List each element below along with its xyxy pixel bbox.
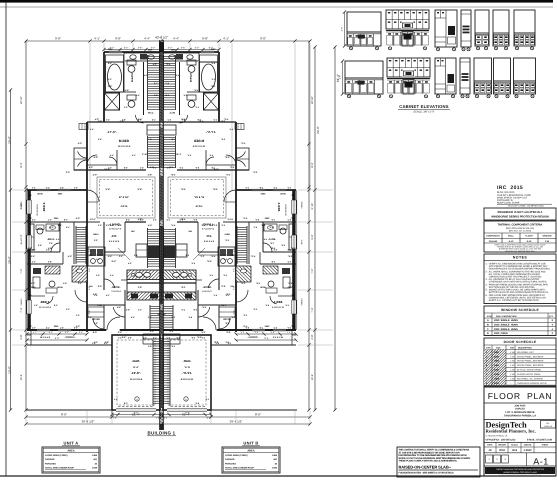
svg-text:FOYER: FOYER [223, 318, 231, 321]
top sub dimension line [104, 49, 219, 51]
hall/kit partition vertical2 [197, 222, 199, 252]
window top bath [201, 51, 214, 53]
svg-text:1.2500: 1.2500 [524, 449, 532, 452]
svg-text:5'-6": 5'-6" [194, 89, 198, 92]
wing bottom wall / front wall [162, 329, 297, 331]
svg-text:3'-4": 3'-4" [79, 331, 83, 334]
svg-text:20'-10": 20'-10" [20, 96, 23, 104]
svg-text:9'-0": 9'-0" [260, 36, 266, 40]
svg-text:BLDG: IRC-2015: BLDG: IRC-2015 [497, 191, 515, 194]
leader arrow kitchen [118, 248, 130, 260]
svg-text:2'-10": 2'-10" [142, 153, 148, 156]
kitchen rear wall band [127, 282, 162, 284]
extension lines bottom [25, 411, 27, 424]
svg-text:-BA.2-: -BA.2- [47, 238, 55, 241]
svg-text:-BED 3-: -BED 3- [40, 300, 50, 304]
svg-text:1949: 1949 [92, 467, 98, 470]
svg-text:-14'-6-: -14'-6- [195, 205, 203, 208]
svg-text:-GAR-: -GAR- [183, 359, 192, 363]
svg-text:5'-4": 5'-4" [171, 224, 175, 227]
svg-text:6'-1": 6'-1" [132, 154, 136, 157]
svg-text:8'-0": 8'-0" [98, 285, 102, 288]
step front center [162, 333, 181, 335]
svg-text:3'-2": 3'-2" [153, 219, 157, 222]
bed3 built-ins cluster [282, 268, 290, 274]
svg-text:FLOOR PLAN: FLOOR PLAN [488, 391, 553, 401]
svg-text:1'-6": 1'-6" [171, 138, 175, 141]
leader line hall [95, 254, 125, 256]
svg-text:3'-4": 3'-4" [118, 331, 122, 334]
svg-text:3'-0": 3'-0" [94, 239, 98, 242]
bath block left wall [103, 52, 105, 122]
svg-text:3'-8": 3'-8" [221, 120, 225, 123]
svg-text:WDW: WDW [260, 286, 265, 289]
svg-text:8'-0": 8'-0" [108, 62, 112, 65]
svg-text:SIZE / DESCRIPTION: SIZE / DESCRIPTION [496, 315, 517, 318]
svg-text:8'-0": 8'-0" [93, 331, 97, 334]
garage dashed inset [168, 340, 206, 405]
svg-text:TANGIPAHOA PARISH, LA: TANGIPAHOA PARISH, LA [504, 414, 536, 417]
svg-text:DISCREPANCIES TO THE DESIGNER: DISCREPANCIES TO THE DESIGNER BEFORE PRO… [399, 454, 467, 457]
svg-text:LIVING AREA (COND): LIVING AREA (COND) [45, 454, 68, 457]
bed3 built-ins cluster [33, 268, 41, 274]
sheet left border [5, 3, 7, 476]
svg-text:28'-0": 28'-0" [8, 256, 12, 264]
wing closet rungs column [246, 226, 248, 264]
svg-text:8'-0": 8'-0" [193, 219, 197, 222]
svg-text:2-BED2: 2-BED2 [20, 201, 23, 209]
svg-text:9'-4": 9'-4" [207, 260, 212, 263]
svg-text:9'-8": 9'-8" [202, 36, 208, 40]
svg-text:4'-0": 4'-0" [226, 174, 230, 177]
svg-text:2'-8": 2'-8" [60, 187, 64, 190]
svg-text:3'-2": 3'-2" [223, 274, 227, 277]
wing partition bath2 bottom [263, 251, 296, 253]
svg-text:5'-5": 5'-5" [49, 331, 53, 334]
svg-text:6'-5": 6'-5" [211, 255, 215, 258]
svg-text:17'-8 X 17'-0: 17'-8 X 17'-0 [109, 227, 122, 230]
svg-text:1'-6": 1'-6" [285, 304, 289, 307]
svg-text:8'-0": 8'-0" [226, 331, 230, 334]
svg-text:SITE PRIOR TO COMMENCING WORK: SITE PRIOR TO COMMENCING WORK & REPORT A… [486, 265, 549, 268]
svg-text:5'-6": 5'-6" [225, 322, 229, 325]
svg-text:2'-8": 2'-8" [197, 119, 201, 122]
entry partition [87, 304, 125, 306]
svg-text:-17'-5"-: -17'-5"- [107, 130, 117, 134]
svg-text:8'-4": 8'-4" [20, 162, 23, 167]
svg-text:1. VERIFY ALL DIMENSIONS AND: 1. VERIFY ALL DIMENSIONS AND CONDITIONS … [486, 262, 546, 265]
svg-text:2'-8": 2'-8" [191, 337, 195, 340]
thermal box [484, 221, 556, 252]
wic rung shelving [147, 55, 149, 110]
svg-text:3'-0": 3'-0" [225, 239, 229, 242]
svg-text:8'-4": 8'-4" [311, 162, 314, 167]
svg-text:1949: 1949 [272, 467, 278, 470]
svg-text:WD PANEL, EXT: WD PANEL, EXT [517, 351, 534, 354]
svg-text:WOOD PANEL, INTERIOR: WOOD PANEL, INTERIOR [517, 355, 544, 358]
svg-text:3030 SINGLE HUNG: 3030 SINGLE HUNG [494, 324, 518, 327]
svg-text:2'-6": 2'-6" [339, 75, 342, 80]
kitchen pantry rungs near party wall [147, 228, 149, 268]
entry closet rungs [219, 307, 235, 317]
svg-text:5'-8": 5'-8" [213, 188, 218, 191]
svg-text:8'-0": 8'-0" [131, 316, 135, 319]
svg-text:8'-1": 8'-1" [261, 224, 265, 227]
svg-text:8'-0": 8'-0" [245, 326, 249, 329]
svg-text:8'-0": 8'-0" [255, 413, 261, 417]
svg-text:COMMON WALL BETWEEN UNITS, SEE: COMMON WALL BETWEEN UNITS, SEE DETAILS O… [486, 296, 546, 299]
svg-text:4'-2": 4'-2" [153, 63, 157, 66]
svg-text:8'-0": 8'-0" [265, 304, 269, 307]
svg-text:5'-4": 5'-4" [106, 119, 110, 122]
svg-text:JURISDICTION OVER THIS PROJECT: JURISDICTION OVER THIS PROJECT LOCATION. [486, 276, 543, 279]
svg-text:4'-0": 4'-0" [74, 187, 78, 190]
svg-text:A: A [487, 319, 489, 322]
wing partition closet band [260, 263, 296, 265]
garage dashed inset [117, 340, 155, 405]
svg-text:2'-0": 2'-0" [150, 330, 154, 333]
svg-text:6'-1": 6'-1" [253, 226, 257, 229]
svg-text:4'-0": 4'-0" [138, 309, 142, 312]
svg-text:COMPONENT: COMPONENT [486, 234, 500, 237]
svg-text:2'-8": 2'-8" [281, 244, 285, 247]
built-in cells on bedroom wall [79, 124, 88, 130]
sheet inner top border line [0, 6, 553, 8]
svg-text:4'-4": 4'-4" [173, 36, 179, 40]
svg-text:JS: JS [488, 449, 491, 452]
party wall centerline dashes [161, 40, 163, 430]
toilet 1 [127, 60, 136, 65]
hall partition vertical [103, 222, 105, 290]
svg-text:8'-0": 8'-0" [126, 219, 130, 222]
svg-text:5'-8": 5'-8" [148, 174, 152, 177]
svg-text:1'-6": 1'-6" [259, 326, 263, 329]
svg-text:3'-6": 3'-6" [197, 336, 201, 339]
svg-text:7'-2": 7'-2" [311, 268, 314, 273]
svg-text:2-BED3: 2-BED3 [20, 298, 23, 306]
svg-text:PORCHES: PORCHES [45, 462, 56, 465]
svg-text:3'-0": 3'-0" [253, 171, 257, 174]
cabinet elev: oven tall unit [435, 10, 457, 47]
linen below bath [147, 125, 160, 135]
svg-text:11'-2 X 10'-0: 11'-2 X 10'-0 [36, 203, 39, 215]
svg-text:3'-4": 3'-4" [240, 331, 244, 334]
svg-text:WDW: WDW [57, 286, 62, 289]
svg-text:2'-4": 2'-4" [206, 417, 210, 420]
svg-text:6'-1": 6'-1" [106, 294, 110, 297]
svg-text:9'-0": 9'-0" [134, 411, 139, 414]
svg-text:5'-0": 5'-0" [88, 248, 91, 252]
garage door opening [167, 409, 207, 411]
exterior wall left wing (solid) [27, 190, 30, 330]
cabinet elev row2: sink run [345, 61, 383, 94]
garage outline [112, 335, 160, 410]
bedroom closet rungs near party wall [175, 136, 177, 168]
drive edge below garage [26, 409, 112, 411]
door schedule [484, 338, 556, 386]
svg-text:2'-10": 2'-10" [175, 153, 181, 156]
svg-text:1'-6": 1'-6" [108, 167, 112, 170]
svg-text:2'-2": 2'-2" [108, 78, 112, 81]
svg-text:BYPASS WOOD PANEL: BYPASS WOOD PANEL [517, 373, 542, 376]
svg-text:M.BATH: M.BATH [189, 73, 192, 82]
cabinet elev row2: kitchen run [387, 58, 430, 77]
svg-text:DOOR SCHEDULE: DOOR SCHEDULE [504, 340, 537, 344]
svg-text:5'-0": 5'-0" [251, 255, 255, 258]
svg-text:WOOD PANEL, INTERIOR: WOOD PANEL, INTERIOR [517, 364, 544, 367]
svg-text:-19'-8"-: -19'-8"- [182, 371, 192, 375]
right unit half plan (mirrored) [160, 48, 303, 420]
svg-text:GARAGE: GARAGE [45, 458, 55, 461]
kitchen rear wall band [162, 282, 197, 284]
svg-text:9'-4 X 11'-8: 9'-4 X 11'-8 [203, 240, 214, 243]
wing under-dim row [236, 333, 296, 335]
svg-text:9070: 9070 [494, 382, 500, 385]
kitchen lower cabinet row [162, 292, 197, 300]
svg-text:Residential Planners, Inc.: Residential Planners, Inc. [486, 429, 536, 434]
svg-text:5'-4": 5'-4" [32, 261, 36, 264]
master bath tub [200, 62, 218, 92]
svg-text:3'-2": 3'-2" [195, 46, 200, 49]
svg-text:5'-0": 5'-0" [232, 248, 235, 252]
svg-text:3'-2": 3'-2" [209, 224, 213, 227]
svg-text:12'-4": 12'-4" [311, 374, 314, 381]
svg-text:FOYER: FOYER [92, 318, 100, 321]
svg-text:3'-2": 3'-2" [46, 249, 50, 252]
svg-text:2'-1": 2'-1" [119, 255, 123, 258]
svg-text:13'-2 X 13'-0: 13'-2 X 13'-0 [118, 145, 131, 148]
wing bottom wall / front wall [27, 329, 162, 331]
svg-text:5'-0": 5'-0" [230, 166, 234, 169]
cabinet elev row2: oven tall [435, 58, 456, 94]
living room dashed ceiling inset [97, 177, 155, 218]
kitchen appliances [164, 246, 176, 258]
porch line [27, 344, 112, 346]
svg-text:M.BATH: M.BATH [131, 73, 134, 82]
garage rung storage near party wall [169, 340, 171, 406]
svg-text:6'-1": 6'-1" [213, 294, 217, 297]
svg-text:7'-6": 7'-6" [270, 242, 274, 245]
garage outline [163, 335, 211, 410]
svg-text:2-BED2: 2-BED2 [300, 201, 303, 209]
cabinet elev row2: vanity a [474, 58, 492, 94]
svg-text:8'-0": 8'-0" [264, 337, 269, 340]
svg-text:3'-2": 3'-2" [166, 219, 170, 222]
svg-text:FLOOR: FLOOR [525, 234, 533, 237]
svg-text:6'-1": 6'-1" [287, 219, 291, 222]
svg-text:5'-4": 5'-4" [148, 224, 152, 227]
svg-text:9'-8": 9'-8" [225, 156, 230, 159]
disclaimer text block [397, 447, 480, 477]
svg-text:FOUNDATION NOTES - SEE SHEET S: FOUNDATION NOTES - SEE SHEET S-1 FOR DET… [399, 472, 455, 475]
svg-text:4'-0": 4'-0" [176, 337, 180, 340]
svg-text:AREA: AREA [67, 449, 74, 452]
svg-text:6'-1": 6'-1" [165, 82, 169, 85]
svg-text:OVERHEAD GARAGE DOOR: OVERHEAD GARAGE DOOR [517, 382, 547, 385]
svg-text:2'-2": 2'-2" [179, 167, 183, 170]
garage circled note [135, 397, 139, 401]
svg-text:2868: 2868 [494, 378, 500, 381]
party wall [159, 40, 161, 430]
svg-text:5'-4": 5'-4" [201, 224, 205, 227]
svg-text:B: B [487, 324, 489, 327]
svg-text:3/16: 3/16 [512, 449, 518, 452]
cabinet elev row2: vanity b [494, 58, 511, 94]
svg-text:DESCRIPTION: DESCRIPTION [518, 347, 532, 350]
svg-text:12'-4": 12'-4" [20, 374, 23, 381]
wing partition bath2 bottom [27, 251, 60, 253]
svg-text:2050 SINGLE HUNG: 2050 SINGLE HUNG [494, 328, 518, 331]
svg-text:1'-6": 1'-6" [171, 345, 175, 348]
master bath tub [106, 62, 124, 92]
svg-text:4'-0": 4'-0" [209, 154, 213, 157]
svg-text:9'-4": 9'-4" [112, 260, 117, 263]
svg-text:2'-2": 2'-2" [140, 167, 144, 170]
svg-text:7'-0 X 9'-4: 7'-0 X 9'-4 [202, 290, 212, 293]
svg-text:4'-0": 4'-0" [175, 74, 179, 77]
left vertical dimension line 2 [25, 41, 27, 410]
svg-text:C: C [487, 328, 489, 331]
svg-text:3'-6": 3'-6" [138, 46, 143, 49]
svg-text:M-BED: M-BED [119, 139, 130, 143]
svg-text:3'-2": 3'-2" [153, 167, 157, 170]
svg-text:-NOOK-: -NOOK- [111, 286, 120, 289]
master bath: tub platform [106, 55, 124, 62]
svg-text:W.I.C.: W.I.C. [169, 112, 175, 115]
svg-text:24'-0": 24'-0" [8, 136, 12, 144]
svg-text:3'-2": 3'-2" [243, 314, 247, 317]
svg-text:1'-6": 1'-6" [92, 342, 96, 345]
svg-text:7'-4": 7'-4" [311, 307, 314, 312]
bath block top wall [162, 51, 220, 53]
svg-text:6'-1": 6'-1" [215, 342, 219, 345]
svg-text:3'-2": 3'-2" [96, 274, 100, 277]
svg-text:2'-6": 2'-6" [241, 282, 245, 285]
svg-text:1'-6": 1'-6" [60, 326, 64, 329]
windborne box [484, 208, 556, 220]
window schedule [484, 306, 556, 336]
svg-text:5'-4": 5'-4" [287, 261, 291, 264]
svg-text:5'-5": 5'-5" [270, 331, 274, 334]
bedroom closet interior arcs [206, 164, 236, 166]
svg-text:1'-6": 1'-6" [205, 398, 209, 401]
svg-text:SHEET: SHEET [542, 444, 549, 447]
svg-text:4'-0": 4'-0" [191, 262, 195, 265]
left nook hatched counter [72, 266, 87, 282]
svg-text:3'-2": 3'-2" [273, 249, 277, 252]
kitchen pantry rungs near party wall [175, 228, 177, 268]
svg-text:-14'-6-: -14'-6- [120, 205, 128, 208]
svg-text:1468: 1468 [272, 454, 278, 457]
svg-text:5'-4": 5'-4" [118, 224, 122, 227]
svg-text:6'-1": 6'-1" [46, 326, 50, 329]
svg-text:5'-0": 5'-0" [288, 282, 292, 285]
svg-text:2'-8": 2'-8" [138, 286, 142, 289]
svg-text:SCALE: SCALE [511, 444, 518, 447]
svg-text:5.AB: 5.AB [86, 254, 91, 257]
svg-text:10'-4": 10'-4" [90, 218, 96, 221]
garage circled note [184, 397, 188, 401]
svg-text:AT JOB SITE & BE RESPONSIBLE F: AT JOB SITE & BE RESPONSIBLE FOR SAME. R… [399, 451, 461, 454]
svg-text:2015 INT'L RESIDENTIAL CODE: 2015 INT'L RESIDENTIAL CODE [497, 194, 531, 197]
svg-text:2'-8": 2'-8" [126, 309, 130, 312]
svg-text:-KIT-: -KIT- [111, 235, 117, 238]
svg-text:2'-8": 2'-8" [193, 309, 197, 312]
svg-text:2'-8": 2'-8" [181, 286, 185, 289]
wing closet rungs column [75, 226, 77, 264]
svg-text:5'-0": 5'-0" [68, 255, 72, 258]
svg-text:SHEET A-4. EXTEND GYP BD TO R: SHEET A-4. EXTEND GYP BD TO ROOF DECK. [486, 299, 540, 302]
svg-text:6'-1": 6'-1" [152, 119, 156, 122]
svg-text:9'-8": 9'-8" [94, 156, 99, 159]
window top bath [109, 51, 122, 53]
svg-text:-17'-5"-: -17'-5"- [206, 130, 216, 134]
svg-text:4'-0": 4'-0" [110, 154, 114, 157]
exterior wall left wing (solid) [292, 190, 295, 330]
svg-text:87'-8 1/2": 87'-8 1/2" [119, 196, 129, 199]
svg-text:SECTION R302 OF THE IRC 2015 E: SECTION R302 OF THE IRC 2015 EDITION. [486, 286, 536, 289]
bath2 door arc [51, 243, 60, 252]
bedroom closet rungs near party wall [147, 136, 149, 168]
svg-text:W.I.C.: W.I.C. [148, 112, 154, 115]
svg-text:9'-8": 9'-8" [115, 36, 121, 40]
svg-text:SYM: SYM [487, 315, 492, 318]
svg-text:WINDOW: WINDOW [542, 234, 551, 237]
svg-text:7'-6": 7'-6" [49, 242, 53, 245]
svg-text:5'-0": 5'-0" [78, 142, 82, 145]
svg-text:-19'-8"-: -19'-8"- [131, 371, 141, 375]
svg-text:8'-0": 8'-0" [195, 402, 199, 405]
bedroom/living divider [177, 169, 249, 171]
svg-text:7'-4": 7'-4" [20, 307, 23, 312]
svg-text:CEILING: CEILING [489, 240, 498, 243]
entry closet rungs [88, 307, 104, 317]
svg-text:THK: THK [510, 347, 515, 350]
left unit half plan [20, 48, 163, 420]
svg-text:5'-4": 5'-4" [229, 128, 233, 131]
svg-text:THESE PLANS ARE COPYRIGHTED AN: THESE PLANS ARE COPYRIGHTED AND PROTECTE… [496, 468, 545, 471]
svg-text:2'-8": 2'-8" [20, 334, 23, 339]
svg-text:2-BED3: 2-BED3 [300, 298, 303, 306]
svg-text:WDW: WDW [280, 193, 285, 196]
drive edge below garage [211, 409, 297, 411]
svg-text:WIND SPEED: 140 MPH ULT: WIND SPEED: 140 MPH ULT [497, 196, 528, 199]
svg-text:UNDER FEDERAL COPYRIGHT LAWS: UNDER FEDERAL COPYRIGHT LAWS [503, 471, 537, 474]
toilet 2 [187, 95, 196, 100]
svg-text:5'-4": 5'-4" [213, 119, 217, 122]
wing top wall [27, 189, 87, 191]
svg-text:3050 SINGLE HUNG: 3050 SINGLE HUNG [494, 319, 518, 322]
svg-text:SIZE: SIZE [496, 347, 501, 350]
svg-text:5'-4": 5'-4" [273, 187, 277, 190]
svg-text:2'-2": 2'-2" [32, 249, 36, 252]
svg-text:87'-8 1/2": 87'-8 1/2" [194, 196, 204, 199]
porch line [211, 344, 296, 346]
svg-text:4'-0": 4'-0" [138, 119, 142, 122]
svg-text:1'-6": 1'-6" [271, 219, 275, 222]
svg-text:9'-4 X 11'-8: 9'-4 X 11'-8 [109, 240, 120, 243]
svg-text:RESIDENTIAL PROVISIONS 2015: RESIDENTIAL PROVISIONS 2015 [505, 250, 534, 253]
utility walls [88, 247, 105, 266]
closet door arcs [236, 151, 245, 158]
svg-text:3'-2": 3'-2" [166, 167, 170, 170]
svg-text:6'-1": 6'-1" [154, 82, 158, 85]
svg-text:5'-0": 5'-0" [241, 142, 245, 145]
svg-text:16'-0": 16'-0" [8, 366, 12, 374]
svg-text:24'-0": 24'-0" [316, 126, 320, 134]
svg-text:4'-0": 4'-0" [50, 226, 54, 229]
svg-text:3'-6": 3'-6" [181, 46, 186, 49]
